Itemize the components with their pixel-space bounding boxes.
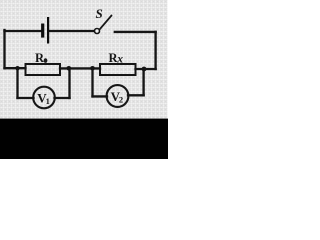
wire: top-left horizontal to battery [5,30,41,32]
switch S pivot circle [95,29,100,34]
wire: V1 branch right vertical [68,68,70,98]
svg-text:R: R [35,51,45,65]
svg-text:x: x [116,54,123,66]
node junction mid-left on row (to V1 right) [67,66,72,71]
wire: right row segment to Rx [136,68,156,70]
resistor Rx body [100,64,136,75]
node junction left on row (to V1 left) [15,66,19,70]
voltmeter V1 body [33,87,55,109]
resistor R0 body [26,64,61,75]
wire: row between R0 and Rx [60,67,100,69]
switch S blade [100,16,112,30]
svg-text:2: 2 [119,95,123,105]
wire: left vertical main [3,30,5,68]
wire: switch to right corner [115,31,156,33]
battery B1 short plate [41,24,44,38]
wire: V1 branch left vertical [16,68,18,98]
node junction right on row (to V2 right) [142,67,147,72]
wire: V1 bottom right segment [55,97,70,99]
wire: V2 bottom left segment [93,95,108,97]
black censor bar bottom [0,119,168,159]
battery B1 long plate [47,17,49,44]
wire: V2 bottom right segment [128,94,144,96]
svg-text:S: S [96,6,103,21]
wire: V2 branch right vertical [142,69,144,95]
wire: left row segment to R0 [5,67,26,69]
paper background [0,0,168,159]
wire: V1 bottom left segment [18,97,34,99]
wire: battery to switch [50,30,94,32]
wire: right vertical main [154,32,156,69]
wire: V2 branch left vertical [91,68,93,96]
svg-text:1: 1 [46,96,50,106]
node junction mid-right on row (to V2 left) [90,66,95,71]
voltmeter V2 body [107,85,129,107]
